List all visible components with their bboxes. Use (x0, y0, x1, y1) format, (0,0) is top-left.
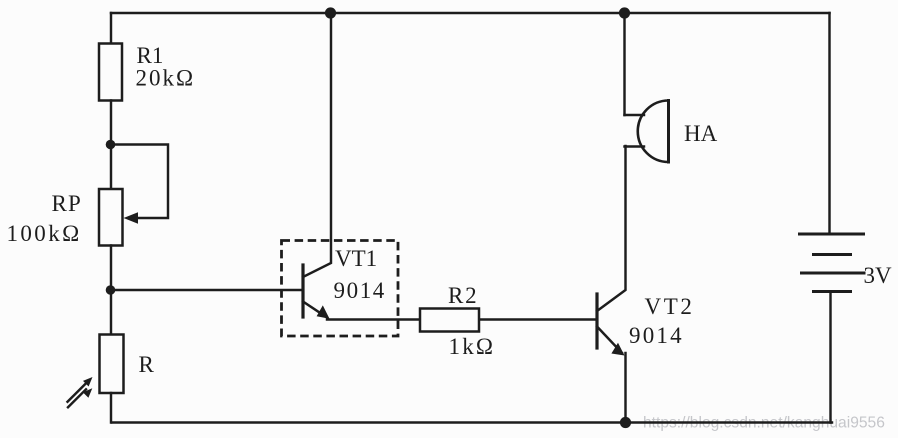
svg-text:1kΩ: 1kΩ (449, 334, 496, 359)
svg-text:VT1: VT1 (335, 246, 377, 271)
svg-text:R2: R2 (448, 283, 478, 308)
svg-text:9014: 9014 (629, 323, 684, 348)
svg-text:9014: 9014 (334, 278, 386, 303)
svg-text:HA: HA (684, 121, 718, 146)
svg-text:20kΩ: 20kΩ (136, 66, 196, 91)
svg-text:R1: R1 (137, 43, 164, 68)
svg-text:3V: 3V (864, 263, 893, 288)
svg-text:100kΩ: 100kΩ (7, 221, 82, 246)
svg-text:VT2: VT2 (645, 294, 695, 319)
svg-text:R: R (139, 352, 155, 377)
svg-text:RP: RP (52, 191, 83, 216)
